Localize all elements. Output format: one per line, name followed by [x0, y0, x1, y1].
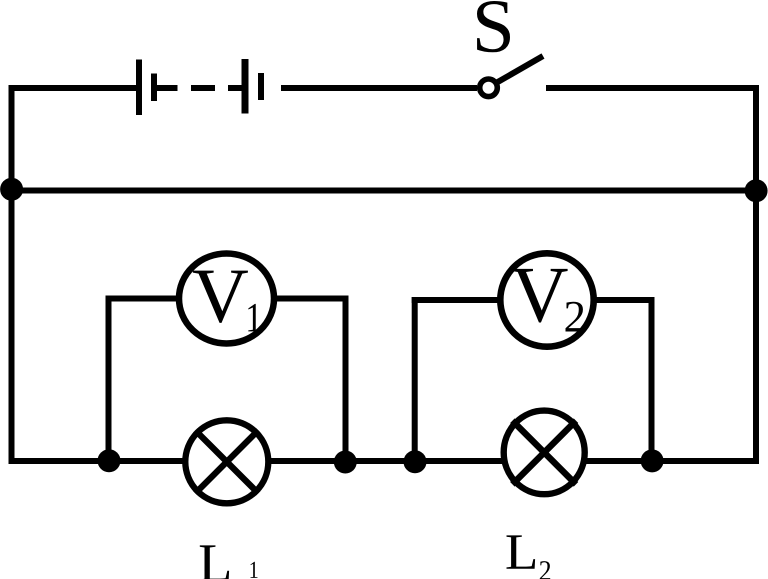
- wire: V2 right riser: [649, 297, 655, 461]
- wire: V2 right stub: [592, 297, 655, 303]
- switch S lever: [496, 56, 543, 83]
- battery B1 cell 2 long plate: [242, 59, 249, 114]
- lamp L1 cross stroke 1: [195, 430, 258, 493]
- wire: V1 right stub: [272, 296, 349, 302]
- wire: dashed stub after cell 1: [157, 85, 178, 91]
- wire: bottom rail: [9, 458, 760, 464]
- node: V1/L1 right junction: [334, 451, 357, 474]
- lamp L2 circle: [504, 411, 585, 495]
- lamp L2 cross stroke 2: [512, 421, 576, 485]
- label V2: [512, 269, 568, 323]
- wire: V2 left stub: [412, 297, 502, 303]
- battery B1 cell 1 long plate: [136, 60, 142, 116]
- lamp L1 cross stroke 2: [195, 430, 258, 493]
- battery B1 cell 1 short plate: [151, 74, 157, 102]
- label L1: [200, 545, 229, 579]
- label L2: [506, 535, 535, 568]
- node: V2/L2 left junction: [404, 450, 427, 473]
- wire: dash between battery cells: [191, 85, 215, 91]
- battery B1 cell 2 short plate: [258, 73, 264, 100]
- wire: V1 left riser: [106, 296, 112, 462]
- wire: top rail left segment to battery: [9, 85, 137, 91]
- node: V2/L2 right junction: [641, 449, 664, 472]
- wire: left vertical rail: [9, 85, 15, 464]
- wire: top rail from switch to right corner: [546, 85, 759, 91]
- voltmeter V1 circle: [179, 253, 274, 343]
- node: middle rail right junction: [745, 179, 768, 202]
- voltmeter V2 circle: [500, 253, 593, 346]
- wire: top rail from battery to switch: [281, 85, 477, 91]
- label V1: [193, 271, 248, 323]
- lamp L2 cross stroke 1: [512, 421, 576, 485]
- wire: right vertical rail: [753, 85, 759, 464]
- node: V1/L1 left junction: [98, 449, 121, 472]
- wire: V1 right riser: [343, 296, 349, 462]
- wire: middle horizontal rail: [9, 188, 760, 194]
- lamp L1 circle: [185, 420, 268, 503]
- wire: dashed stub before cell 2: [228, 85, 242, 91]
- label S: [477, 1, 510, 52]
- switch S pivot circle: [480, 79, 498, 97]
- wire: V2 left riser: [412, 297, 418, 461]
- wire: V1 left stub: [106, 296, 182, 302]
- node: middle rail left junction: [0, 178, 23, 201]
